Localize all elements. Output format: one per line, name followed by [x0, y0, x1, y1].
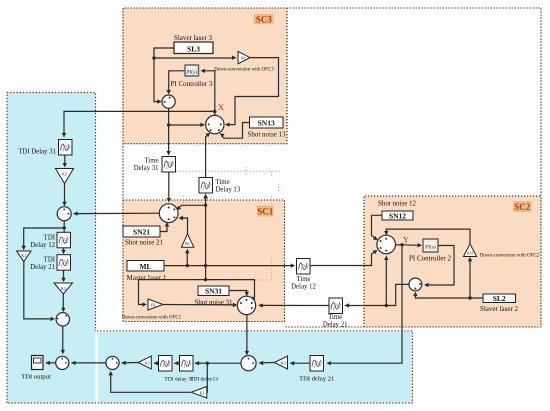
wire: sum2 output left then down to laser row [345, 284, 409, 305]
TDI Delay 21 block [57, 255, 71, 271]
gain fO (down-conversion OFC3) [238, 51, 250, 63]
gain fO2 (up, down-conversion OFC2) [464, 244, 477, 257]
svg-text:TDI delay 31: TDI delay 31 [164, 377, 194, 383]
junction SL3 branch [152, 56, 155, 59]
wire: B1 output up and into mixer right input [181, 218, 188, 234]
wire: mixer output right to node [396, 244, 403, 246]
wire: SN13 output to mixer bottom-right input [222, 123, 250, 139]
SC1 orange area [123, 200, 285, 322]
wire: K3 down to circle 1 [64, 184, 66, 204]
wire: Time Delay 13 output up to mixer bottom-left input [206, 134, 209, 178]
gain K2 strip (left) [274, 356, 287, 369]
PI Controller 2 block PI(s) [423, 239, 438, 252]
svg-text:SC2: SC2 [514, 202, 531, 212]
svg-text:B1: B1 [151, 303, 156, 308]
wire: lower mixer output down to bottom strip circle [246, 315, 248, 352]
wire: PI Controller 3 output to sum top input [169, 71, 185, 91]
Time Delay 21 block [329, 298, 343, 314]
svg-text:X: X [218, 102, 224, 112]
svg-text:Down-conversion with OFC1: Down-conversion with OFC1 [122, 316, 182, 321]
svg-text:Master laser 1: Master laser 1 [127, 274, 167, 282]
gain K3 (down) [56, 169, 74, 184]
bottom cyan TDI strip [98, 332, 413, 403]
gain K3 strip (left) [138, 356, 151, 369]
wire: Time Delay 12 output to SC2 mixer lower-left input [311, 252, 376, 266]
wire: SL3 output to junction [154, 48, 174, 58]
TDI circle 4 [106, 356, 119, 369]
svg-text:TDI delay 21: TDI delay 21 [299, 376, 334, 383]
wire: circle1 output down to junction B [63, 221, 65, 228]
SC2 mixer [377, 235, 396, 254]
Time Delay 31 block [162, 157, 176, 173]
wire: SN12 output to mixer upper-left input [372, 215, 383, 238]
junction: SC2 mixer output node [400, 243, 403, 246]
wire: SN21 output to mixer bottom input [160, 226, 167, 232]
wire: circle 5 output left to junction C [207, 362, 241, 364]
wire: junction up to fO2 input [469, 260, 471, 299]
TDI delay 31 block (strip) [159, 356, 173, 372]
svg-text:K3: K3 [62, 172, 67, 177]
LISA constellation outer area (white, dotted border) [123, 8, 541, 327]
junction A (local laser split) [167, 123, 170, 126]
sum circle SC3 [162, 95, 175, 108]
svg-text:Delay 13: Delay 13 [216, 187, 241, 194]
TDI Delay 12 block [57, 232, 71, 248]
gain B1 (up) [182, 234, 194, 247]
wire: circle 2 output down to circle 3 [62, 326, 64, 352]
svg-text:Delay 21: Delay 21 [30, 264, 55, 271]
svg-text:Delay 12: Delay 12 [291, 284, 316, 291]
svg-text:Shot noise 31: Shot noise 31 [194, 299, 233, 307]
wire: K2 down to circle 2 [62, 294, 64, 310]
wire: sum output down to junction A [168, 108, 170, 125]
SC1 label [257, 206, 274, 217]
wire: TDI delay 31 out to gain K3 strip [154, 362, 159, 364]
wire: node to PI(s)2 input [402, 244, 420, 247]
wire: node down to bottom TDI strip [330, 245, 403, 363]
svg-text:PI Controller 2: PI Controller 2 [409, 255, 451, 263]
wire: TDI Delay 31 down to gain K3 [64, 156, 66, 166]
svg-text:K1: K1 [200, 390, 205, 395]
wire: ML junction up to B1 input [186, 253, 188, 266]
wire: TDI Delay 12 to TDI Delay 21 [63, 248, 65, 252]
svg-text:SN31: SN31 [205, 287, 222, 296]
wire: K1 strip output to circle 4 bottom input [111, 373, 192, 393]
wire: junction B to TDI Delay 12 [63, 228, 65, 230]
wire: K2 strip to circle 5 right input [260, 362, 275, 364]
svg-text:PI(s): PI(s) [186, 68, 197, 75]
svg-text:Time: Time [216, 179, 230, 186]
wire: TDI delay 21 out to gain K2 strip [291, 362, 311, 364]
svg-text:Slaver laser 3: Slaver laser 3 [174, 34, 213, 42]
wire: dot2 down to T junction [205, 266, 207, 280]
wire: Time Delay 31 output down to SC1 mixer [168, 172, 170, 199]
wire: circle 3 output to TDI output scope [46, 362, 56, 364]
wire: ML riser (Delay13 feed) down through rows [205, 205, 207, 265]
svg-text:SN21: SN21 [133, 228, 150, 237]
TDI circle 2 [56, 313, 69, 326]
wire: fO gain output to mixer right input [228, 58, 279, 125]
svg-text:Y: Y [403, 235, 409, 245]
Time Delay 13 block [199, 178, 213, 194]
junction dot2 on ML row [204, 264, 207, 267]
wire: laser distribution row to mixer top-right input [179, 205, 206, 207]
TDI delay 21 block (strip) [310, 356, 324, 372]
bottom strip red dotted border + shared bottom [7, 331, 413, 403]
wire: circle 4 output to circle 3 right input [72, 362, 106, 364]
wire: K3 strip to circle 4 right input [122, 362, 138, 364]
wire: T right to lower mixer upper-right input [206, 280, 255, 300]
svg-text:TDI Delay 31: TDI Delay 31 [18, 149, 56, 156]
Time Delay 12 block [297, 259, 311, 275]
wire: ML riser up into Time Delay 13 input [205, 198, 207, 206]
wire: OFC1 gain output to lower mixer left input [163, 304, 234, 306]
wire: SC1 mixer output left to TDI circle 1 [76, 212, 160, 214]
svg-text:Shot noise 13: Shot noise 13 [247, 131, 286, 139]
svg-text:SL2: SL2 [493, 294, 506, 303]
svg-text:K3: K3 [145, 361, 150, 366]
SC2 sum circle [409, 278, 422, 291]
TDI delay13 block (strip) [180, 356, 194, 372]
svg-text:TDI output: TDI output [21, 374, 51, 381]
svg-text:SN13: SN13 [258, 119, 275, 128]
SC2 orange area [364, 196, 541, 327]
ML block [127, 261, 164, 272]
svg-text:TDI: TDI [44, 257, 56, 264]
svg-text:B1: B1 [185, 241, 190, 246]
TDI circle 5 [241, 356, 256, 371]
SC3 label [254, 14, 274, 24]
SL2 block [483, 294, 516, 303]
PI Controller 3 block PI(s) [185, 65, 199, 76]
svg-text:Delay 12: Delay 12 [30, 242, 55, 249]
wire: SL2 output left, junction, up to fO2 input [415, 295, 483, 298]
wire: mixer output up to node, left to TDI, and to PI input [64, 111, 215, 133]
svg-text:SC3: SC3 [256, 14, 273, 24]
wire: junction down to sum left input [154, 58, 158, 102]
svg-text:Shot noise 21: Shot noise 21 [125, 239, 164, 247]
svg-text:SC1: SC1 [257, 206, 274, 216]
junction B [62, 226, 65, 229]
TDI output scope block [32, 356, 44, 370]
wire: junction A right to mixer left input [169, 124, 201, 126]
gain K1 strip (left) [191, 387, 207, 399]
TDI circle 1 [57, 207, 71, 221]
T junction [204, 278, 207, 281]
svg-text:Shot noise 12: Shot noise 12 [378, 200, 417, 208]
outer dotted border [123, 8, 541, 327]
svg-text:ML: ML [139, 262, 151, 271]
SL3 block [174, 42, 213, 54]
junction on ML riser at row [204, 204, 207, 207]
junction C [206, 362, 209, 365]
wire: junction up to mixer bottom input [385, 257, 387, 306]
SC3 dotted border (right, bottom) [123, 8, 287, 144]
junction on SL2 wire [468, 296, 471, 299]
svg-text:fO: fO [241, 56, 245, 61]
wire: T left to OFC1 gain input [139, 280, 206, 305]
SC1 lower mixer [237, 296, 255, 314]
junction: laser row to mixer bottom [385, 304, 388, 307]
svg-text:Slaver laser 2: Slaver laser 2 [480, 305, 519, 313]
SC1 dotted border (top, right, bottom) [123, 200, 285, 322]
SN21 block [123, 226, 160, 237]
SN12 block [382, 211, 413, 220]
svg-text:TDI: TDI [44, 235, 56, 242]
left cyan TDI box [7, 93, 96, 404]
svg-text:Time: Time [296, 276, 310, 283]
svg-text:fO2: fO2 [467, 251, 473, 256]
svg-text:Delay 31: Delay 31 [134, 165, 159, 172]
wire: TDI delay13 out to TDI delay 31 [175, 362, 180, 364]
svg-text:Time: Time [144, 158, 158, 165]
TDI circle 3 [56, 356, 69, 369]
wire: ML output row to Time Delay 12 [164, 265, 293, 267]
junction mixer output node [213, 110, 216, 113]
wire: TDI Delay 21 down to gain K2 [63, 270, 65, 279]
wire: Time Delay 21 output (from SC2) to lower mixer right input [259, 304, 329, 306]
SC3 orange area [123, 8, 287, 144]
junction dot1 on ML row [186, 264, 189, 267]
left cyan box red dotted border [7, 93, 96, 404]
svg-text:Time: Time [328, 314, 342, 321]
svg-text:K1: K1 [21, 253, 26, 258]
wire: junction C down and left to gain K1 strip input [206, 363, 209, 392]
svg-text:SN12: SN12 [389, 211, 406, 220]
wire: node up to PI(s) input [203, 71, 215, 112]
svg-text:SL3: SL3 [187, 45, 200, 54]
svg-text:TDI delay13: TDI delay13 [190, 377, 218, 383]
svg-text:K2: K2 [281, 361, 286, 366]
svg-text:K2: K2 [61, 286, 66, 291]
wire: junction A down to Time Delay 31 [168, 125, 170, 152]
wire: junction to fO gain input [154, 57, 234, 59]
wire: K1 down then right to circle 2 left input [24, 262, 52, 319]
gain B1 OFC1 (right) [148, 299, 163, 310]
wire: junction C to TDI delay13 input [195, 362, 207, 364]
gain K1 (down) [17, 251, 32, 262]
svg-text:Delay 21: Delay 21 [323, 322, 348, 329]
wire: fO2 output to mixer top input [386, 229, 470, 243]
svg-text:PI(s): PI(s) [425, 244, 436, 251]
TDI Delay 31 block [59, 140, 73, 156]
mixer X SC3 [206, 115, 224, 133]
svg-text:Down-conversion with OFC2: Down-conversion with OFC2 [480, 254, 540, 259]
wire: SN31 output to lower mixer top input [229, 291, 247, 294]
SC2 dotted border (top, left) [364, 196, 541, 327]
SC2 label [513, 201, 532, 212]
SC1 upper mixer [159, 204, 178, 223]
wire: junction B left to gain K1 [24, 228, 64, 249]
svg-text:Down-conversion with OFC3: Down-conversion with OFC3 [214, 68, 274, 73]
wire: PI(s)2 output hairpin to sum2 right input [426, 246, 454, 286]
SN31 block [198, 286, 229, 296]
gain K2 (down) [54, 283, 73, 294]
svg-text:PI Controller 3: PI Controller 3 [171, 80, 213, 88]
SN13 block [250, 117, 284, 128]
